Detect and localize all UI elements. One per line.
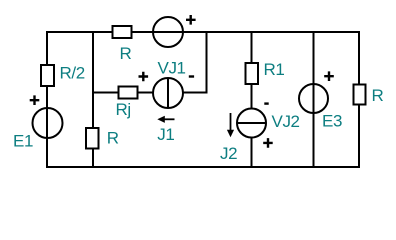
voltage source E1 bbox=[33, 108, 63, 138]
current source J1 (circle VJ1) bbox=[153, 78, 183, 108]
current source J2 (circle VJ2) bbox=[237, 109, 266, 138]
polarity - of VJ2 bbox=[264, 102, 268, 104]
resistor R (middle vertical) bbox=[86, 128, 99, 149]
voltage source E3 bbox=[299, 84, 328, 113]
svg-text:Rj: Rj bbox=[116, 100, 131, 119]
svg-text:R1: R1 bbox=[264, 60, 285, 79]
svg-text:J1: J1 bbox=[157, 125, 174, 144]
resistor R1 bbox=[246, 63, 259, 84]
resistor R (right vertical) bbox=[354, 85, 366, 105]
svg-text:E1: E1 bbox=[13, 131, 33, 150]
polarity + of VJ2 bbox=[263, 138, 273, 148]
svg-text:R: R bbox=[120, 44, 132, 63]
svg-text:J2: J2 bbox=[220, 144, 237, 163]
polarity + of top source bbox=[186, 15, 196, 25]
wire: R1 / VJ2 vertical branch at x=251.5 bbox=[251, 32, 253, 167]
svg-text:R: R bbox=[107, 129, 119, 148]
wire: E3 vertical branch at x=313.5 bbox=[313, 32, 315, 167]
resistor R/2 (left branch) bbox=[41, 65, 54, 86]
svg-text:R: R bbox=[372, 86, 384, 105]
voltage source (top, unnamed) bbox=[153, 17, 183, 47]
svg-text:E3: E3 bbox=[322, 111, 342, 130]
svg-text:VJ1: VJ1 bbox=[158, 58, 186, 77]
polarity + of E3 bbox=[324, 71, 334, 81]
wire: outer loop (top net, left E1 branch, bottom net, right R branch) bbox=[47, 32, 359, 167]
polarity + of VJ1 bbox=[139, 72, 149, 82]
wire: Rj / VJ1 horizontal branch with riser to top net bbox=[93, 32, 207, 93]
arrow J1 (current direction, pointing left) bbox=[164, 118, 175, 120]
resistor R (top horizontal) bbox=[113, 26, 132, 38]
wire: middle vertical branch at x=93 (R branch) bbox=[92, 32, 94, 167]
arrow J2 (current direction, pointing down) bbox=[230, 113, 232, 131]
polarity - of VJ1 bbox=[189, 75, 194, 77]
polarity + of E1 bbox=[30, 95, 40, 105]
resistor Rj (horizontal) bbox=[119, 87, 138, 99]
svg-text:VJ2: VJ2 bbox=[272, 112, 300, 131]
svg-text:R/2: R/2 bbox=[60, 64, 85, 83]
